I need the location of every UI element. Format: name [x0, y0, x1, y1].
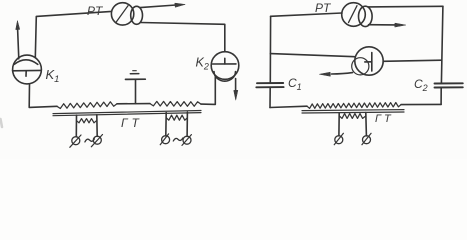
heater GT legs (right circuit): [339, 113, 367, 136]
AC terminal circle 1a: [70, 135, 81, 147]
resistor RT right section (left circuit): [150, 101, 201, 106]
capacitor C1: [256, 83, 283, 87]
wire bottom rail right segment (right circuit): [401, 103, 441, 105]
meter PT (left): [111, 3, 142, 25]
photocell K2: [211, 52, 239, 81]
resistor RT left section (left circuit): [57, 102, 117, 109]
wire resistor middle section: [117, 103, 150, 105]
thermal plate double line (left circuit): [53, 111, 201, 116]
wire right rail lower (right circuit): [440, 88, 442, 105]
wire PT to K2 top: [141, 23, 225, 52]
arrow right from PT meter (right circuit): [369, 23, 406, 27]
wire top rail right circuit (left corner to PT): [271, 13, 342, 16]
svg-text:ГТ: ГТ: [375, 113, 394, 125]
heater GT group 2 legs: [166, 112, 188, 136]
wire left rail lower (right circuit): [269, 88, 271, 108]
photocell K1: [13, 55, 42, 84]
ground tap (inverted ground symbol on resistor middle): [126, 71, 146, 104]
phototube (right circuit): [352, 47, 384, 75]
thermal plate double line (right circuit): [302, 110, 404, 113]
wire top rail left (K1 to PT meter): [35, 11, 111, 57]
wire left rail upper (right circuit): [269, 16, 271, 82]
svg-text:C1: C1: [288, 76, 302, 92]
heater GT group 2 winding: [166, 115, 187, 120]
wire phototube to right rail: [383, 60, 441, 61]
svg-text:PT: PT: [315, 1, 332, 15]
arrow up-left at K1 (radiation arrow): [16, 21, 20, 59]
heater GT group 1 winding: [77, 119, 97, 123]
AC tilde group 1: [85, 139, 95, 142]
arrow down from K2: [234, 79, 238, 101]
AC terminal circle 3b: [362, 133, 371, 144]
meter PT (right): [342, 3, 372, 27]
wire middle rail to phototube: [270, 54, 354, 57]
AC terminal circle 1b: [91, 135, 102, 147]
AC tilde group 2: [173, 138, 183, 141]
wire PT to top-right corner: [368, 5, 443, 8]
svg-text:ГТ: ГТ: [121, 116, 143, 130]
capacitor C2: [435, 83, 463, 87]
wire bottom rail left segment (right circuit): [270, 106, 307, 107]
scan smudge left edge: [1, 119, 3, 127]
arrow left from phototube: [320, 72, 353, 76]
AC terminal circle 3a: [334, 133, 343, 144]
wire K2 bottom to resistor: [201, 76, 215, 105]
svg-text:C2: C2: [414, 77, 428, 93]
heater GT group 1 legs: [76, 115, 97, 137]
arrow right from PT meter (left circuit): [140, 3, 185, 8]
svg-text:K1: K1: [46, 67, 60, 85]
AC terminal circle 2b: [182, 135, 191, 146]
wire right rail upper (right circuit): [441, 6, 443, 83]
svg-text:K2: K2: [196, 56, 209, 72]
heater GT winding (right circuit): [339, 114, 365, 119]
wire K1 bottom to resistor: [29, 84, 57, 108]
AC terminal circle 2a: [160, 134, 169, 145]
resistor RT (right circuit): [307, 103, 401, 109]
svg-text:PT: PT: [87, 4, 104, 18]
